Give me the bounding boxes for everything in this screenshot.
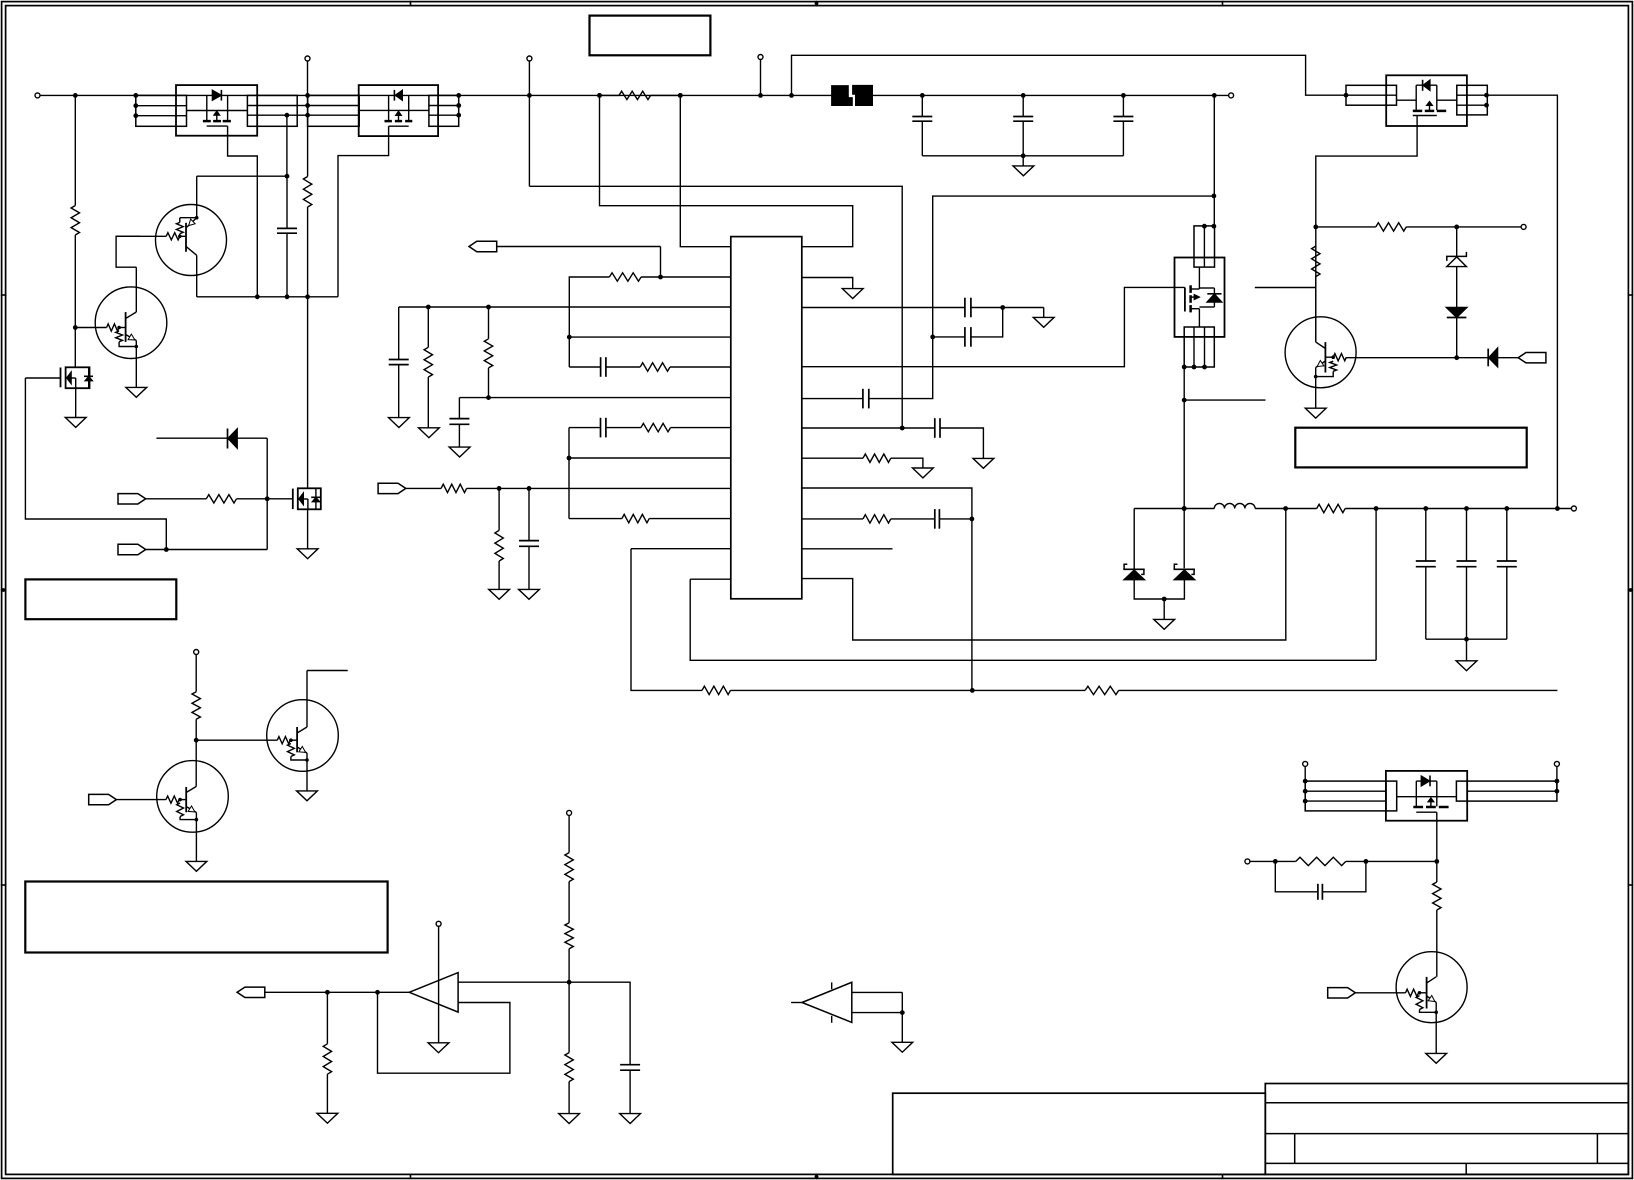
junction M5 src [1434, 859, 1439, 864]
pin group Q10 right [247, 95, 297, 126]
power tick U3 top [831, 982, 833, 989]
power tick U3 bottom [831, 1016, 833, 1023]
resistor R19 [1376, 223, 1407, 231]
base bar Q3 [185, 787, 187, 812]
terminal J6 [1521, 224, 1526, 229]
schottky D7 [1123, 509, 1164, 600]
gate bar M1 [60, 368, 62, 388]
capacitor C13 [912, 95, 932, 155]
wire Q1Q2 link [116, 236, 140, 267]
resistor R25 [565, 815, 573, 881]
wire phase row [529, 186, 902, 428]
wire J2 stub [307, 61, 309, 95]
base bar Q5 [1426, 977, 1428, 1009]
wire Q4 coll stub [307, 670, 348, 672]
wire R22 down [1436, 910, 1438, 977]
mosfet M3 package [1175, 258, 1225, 337]
junction Q6 emitter [1314, 375, 1318, 379]
wire Q3 base link [180, 799, 186, 801]
pin group Q10 left [136, 95, 187, 126]
opamp U2 [409, 973, 458, 1013]
transistor Q6 [1285, 317, 1356, 388]
mosfet M3 channel [1189, 285, 1192, 312]
junction vref1 [426, 305, 431, 310]
junction rail-c16 [1423, 506, 1428, 511]
junction bus-R2 [73, 93, 78, 98]
border tick right [1628, 294, 1634, 296]
wire U2 vcc [438, 926, 440, 1043]
wire U3 out [791, 1002, 802, 1004]
junction node A [285, 174, 290, 179]
resistor R5 [206, 495, 236, 503]
diode D4 [1457, 348, 1519, 367]
pin group M5 left [1305, 781, 1386, 811]
mosfet M4 internals [1397, 85, 1457, 115]
border tick top [410, 1, 412, 7]
port EN2 [118, 544, 146, 554]
wire Q11 source exit [338, 126, 389, 297]
junction bus-pin1 [678, 93, 683, 98]
junction bus-C13 [920, 93, 925, 98]
capacitor C19 [1275, 861, 1366, 899]
junction phase-428 [900, 426, 905, 431]
capacitor C5 [601, 357, 606, 377]
body diode M5 [1416, 776, 1437, 787]
wire CTRL2 [1355, 992, 1405, 994]
junction bus-R1b [678, 93, 683, 98]
terminal J1 [35, 93, 40, 98]
wire M2 source [307, 509, 309, 549]
junction c11 [930, 335, 935, 340]
junction rc1 [1273, 859, 1278, 864]
resistor R7 [495, 488, 503, 589]
junction Q4 base [289, 738, 293, 742]
ground R27 [559, 1114, 580, 1124]
border tick left [1, 294, 7, 296]
ground U2 [428, 1043, 449, 1053]
wire J9 stub [1556, 766, 1558, 791]
wire fb up [1375, 509, 1377, 661]
mosfet M5 package [1386, 771, 1467, 821]
junction M3 node [1212, 194, 1217, 199]
wire cap C2 top [286, 176, 288, 228]
base bar Q2 [125, 312, 127, 342]
resistor R14 [702, 686, 731, 694]
wire M4 out right [1487, 95, 1557, 508]
ground Q3 [186, 861, 207, 871]
emitter Q2 [126, 334, 137, 387]
junction gate net [265, 496, 270, 501]
diode D2 [156, 429, 267, 449]
mosfet Q11 package [359, 85, 438, 136]
junction M3-rail [1182, 506, 1187, 511]
ground schottky [1154, 599, 1175, 629]
emitter Q3 [186, 806, 196, 861]
wire J4 stub [760, 60, 762, 96]
wire ct row [459, 397, 730, 399]
wire pin20 a [802, 398, 863, 400]
junction zener [1454, 225, 1459, 230]
transistor Q2 [95, 287, 167, 359]
wire pin14 [802, 509, 1286, 641]
wire cap rail [922, 155, 1123, 157]
wire fb2 vertical [568, 428, 570, 519]
wire M4 source exit [1316, 116, 1417, 343]
wire Q1 emitter up [196, 176, 198, 218]
wire EN1 [146, 498, 207, 500]
junction rail2 [285, 294, 290, 299]
ground R8 [419, 428, 440, 438]
junction divider [567, 980, 572, 985]
border tick bottom [1222, 1174, 1224, 1180]
wire pin21 [802, 287, 1185, 366]
transistor Q3 [157, 761, 229, 833]
junction rc2 [1364, 859, 1369, 864]
junction q3c [194, 738, 199, 743]
resistor Q2 base [107, 324, 120, 331]
resistor Q1 base [166, 233, 180, 240]
wire U1 pin VCC [680, 95, 731, 246]
border tick right center [1628, 588, 1634, 592]
junction J8 pins [1303, 779, 1308, 804]
junction rail1 [255, 294, 260, 299]
wire U3 in2 [852, 1012, 903, 1014]
ground C4 [449, 447, 470, 457]
wire EN2 [146, 549, 268, 551]
capacitor C3 [389, 307, 409, 418]
label box note2 [25, 882, 387, 953]
wire R1 pads [600, 94, 681, 96]
wire pin12 [690, 578, 731, 580]
ground pin19 [973, 458, 994, 468]
junction base net [1454, 355, 1459, 360]
junction Q5 base [1418, 991, 1422, 995]
ground C3 [389, 418, 410, 428]
junction schottky [1162, 597, 1167, 602]
collector Q3 [186, 740, 196, 792]
ground pin23 [842, 289, 863, 299]
wire M3 drain [1213, 95, 1215, 226]
wire gnd return a [690, 579, 1376, 660]
pin group M4 left [1346, 85, 1397, 105]
capacitor C2 [277, 228, 297, 233]
ground caps 2 [1456, 639, 1477, 671]
wire R10 left [569, 277, 609, 367]
ground R24 [317, 1113, 338, 1123]
pin group M3 top [1194, 226, 1215, 267]
base bar Q1 [185, 223, 187, 252]
junction isns1 [497, 486, 502, 491]
resistor R26 [565, 882, 573, 983]
terminal J2 [305, 56, 310, 61]
wire pin18 [802, 458, 923, 468]
body diode Q11 [394, 90, 402, 101]
junction bus-pinbox1 [133, 93, 138, 98]
wire vref row [399, 306, 731, 308]
border tick left [1, 884, 7, 886]
resistor R18 [1312, 246, 1320, 277]
mosfet M4 package [1386, 75, 1467, 126]
junction Q3 emitter [195, 818, 199, 822]
junction gate node [285, 113, 290, 118]
pin group Q11 right [429, 95, 459, 126]
wire gate drive down [286, 115, 288, 176]
junction Q5 emitter [1434, 1011, 1438, 1015]
capacitor C18 [1497, 509, 1517, 640]
wire pin2 [641, 276, 731, 278]
ground Q2 [126, 387, 147, 397]
wire U2 inp [458, 981, 569, 983]
title block cells [1295, 1134, 1598, 1175]
emitter Q4 [297, 746, 307, 790]
terminal J10 [1245, 859, 1250, 864]
wire gate loop [25, 378, 166, 550]
junction rail-m3 [1182, 506, 1187, 511]
wire aux top [792, 55, 1347, 95]
schottky D8 [1164, 564, 1195, 599]
title block main [1265, 1084, 1628, 1175]
wire M5 source exit [1436, 812, 1438, 882]
wire pin22 a [802, 307, 965, 309]
body diode M3 [1199, 288, 1222, 307]
wire gate rail [197, 296, 338, 298]
junction bus-C15 [1121, 93, 1126, 98]
junction fbr [970, 688, 975, 693]
pin rect M5 left [1386, 781, 1397, 811]
opamp U3 [802, 982, 852, 1022]
wire rail a [1134, 508, 1214, 510]
wire U2 feedback [378, 992, 510, 1073]
junction pin rows left [133, 103, 138, 118]
junction M5 right pins [1555, 779, 1560, 794]
resistor Q5 internal [1416, 996, 1436, 1013]
junction isns2 [527, 486, 532, 491]
mosfet M1 box [66, 367, 90, 388]
wire M1 drain [74, 328, 76, 368]
junction fb node [567, 335, 572, 340]
border tick right [1628, 884, 1634, 886]
terminal J7 [1571, 506, 1576, 511]
border tick top [1222, 1, 1224, 7]
junction rail-c17 [1464, 506, 1469, 511]
capacitor C16 [1416, 509, 1436, 640]
resistor Q6 internal [1316, 361, 1337, 376]
wire rail b [1255, 508, 1317, 510]
port EN1 [118, 494, 146, 504]
gate bar M3 [1184, 288, 1186, 312]
junction pins Q11 left [305, 93, 310, 118]
terminal J12 [436, 921, 441, 926]
capacitor C4 [449, 398, 469, 448]
resistor Q4 internal [288, 744, 308, 761]
resistor R21 [1296, 857, 1346, 865]
resistor R27 [565, 982, 573, 1113]
junction Q3 base [178, 798, 182, 802]
wire Q5 base link [1420, 992, 1427, 994]
ground Q5 [1426, 1053, 1447, 1063]
wire M3 source down [1183, 367, 1185, 568]
port CTRL2 [1328, 988, 1356, 998]
collector Q6 [1316, 277, 1326, 349]
border tick bottom center [815, 1174, 819, 1180]
title block left [893, 1093, 1266, 1174]
junction bus-C14 [1021, 93, 1026, 98]
terminal J9 [1554, 761, 1559, 766]
junction Q2 base [117, 326, 121, 330]
wire Q1 base link [180, 235, 186, 237]
mosfet M2 box [298, 488, 321, 509]
resistor R3 [303, 95, 311, 296]
junction Q6 base [1331, 355, 1335, 359]
junction M3 bottom pins [1182, 365, 1207, 370]
wire cap rail 2 [1426, 638, 1507, 640]
label box note1 [25, 579, 176, 619]
capacitor C20 [569, 982, 640, 1113]
terminal J3 [527, 56, 532, 61]
label box note4 [1295, 428, 1526, 468]
capacitor C7 [519, 488, 539, 589]
resistor R13 [622, 514, 649, 522]
pin group M3 bottom [1184, 327, 1214, 367]
border tick top center [815, 1, 819, 7]
mosfet M3 drain lead [1191, 267, 1200, 289]
wire pin8 [569, 457, 731, 459]
resistor R22 [1433, 882, 1441, 910]
capacitor C11 [965, 327, 971, 347]
fuse F1 [831, 84, 873, 106]
resistor Q3 internal [177, 803, 197, 820]
wire Q10 source exit [228, 126, 258, 297]
wire stub right [1184, 399, 1265, 401]
junction bus-F1 [789, 93, 794, 98]
port ISNS [378, 483, 406, 493]
wire sense down [971, 519, 973, 691]
junction Q4 emitter [305, 758, 309, 762]
ground C7 [519, 589, 540, 599]
pin group M5 right [1467, 781, 1557, 801]
wire fb return c [1119, 689, 1558, 691]
ground R7 [489, 589, 510, 599]
wire pin23 gnd [802, 278, 853, 289]
resistor Q1 internal [176, 218, 183, 237]
title block rows [1265, 1103, 1628, 1164]
wire U3 tie [901, 992, 903, 1012]
junction rail-d [1283, 506, 1288, 511]
resistor Q2 internal [116, 331, 137, 347]
junction bus-end [1212, 93, 1217, 98]
junction Q1 emitter [195, 216, 199, 220]
terminal J11 [194, 650, 199, 655]
zener D5 [1447, 227, 1467, 307]
wire drv row b [1406, 226, 1521, 228]
mosfet M2 internals [299, 488, 320, 509]
mosfet Q10 package [176, 85, 257, 136]
wire CTRL1 [116, 799, 166, 801]
junction M3-stub [1182, 398, 1187, 403]
junction Q2 emitter [135, 345, 139, 349]
mosfet Q11 internals [359, 95, 429, 126]
wire J11 down [195, 655, 197, 692]
wire R2 to Q2 [74, 235, 76, 328]
junction pin16 [970, 517, 975, 522]
ground Q6 [1305, 408, 1326, 418]
junction drv [1313, 225, 1318, 230]
junction bus-599 [597, 93, 602, 98]
junction M3 top pins [1202, 224, 1216, 229]
junction bus-J4 [758, 93, 763, 98]
junction bus-R1a [597, 93, 602, 98]
resistor R10 [609, 273, 641, 281]
resistor R17 [863, 515, 891, 523]
capacitor C12 [935, 509, 940, 529]
terminal J13 [567, 810, 572, 815]
collector Q5 [1427, 977, 1437, 983]
resistor R15 [1085, 686, 1119, 694]
transistor Q4 [267, 700, 339, 772]
wire fb return [631, 549, 702, 691]
resistor R24 [323, 992, 331, 1113]
junction vref2 [486, 305, 491, 310]
wire pin5 b [606, 366, 731, 368]
transistor Q5 [1396, 952, 1467, 1023]
wire pin17 [802, 488, 972, 519]
wire U3 in1 [852, 991, 903, 993]
resistor R6 [441, 484, 467, 492]
wire pin19 a [802, 427, 935, 429]
ground pin22 [1033, 308, 1054, 328]
gate bar M2 [292, 489, 294, 510]
capacitor C9 [863, 389, 869, 409]
resistor Q6 base [1325, 354, 1346, 361]
junction pins Q11 right [456, 93, 461, 118]
port DRV [1518, 353, 1546, 363]
junction ct [486, 395, 491, 400]
wire pin16 [802, 518, 972, 520]
resistor R9 [484, 307, 492, 398]
port VOUT [237, 987, 265, 997]
wire V-in vertical [74, 95, 76, 205]
junction rail-c18 [1504, 506, 1509, 511]
resistor Q4 base [277, 737, 290, 744]
wire R23 down [195, 719, 197, 740]
junction U3 [900, 1010, 905, 1015]
ground C20 [620, 1114, 641, 1124]
wire rail c [1345, 508, 1571, 510]
ground M1 [65, 418, 86, 428]
wire M1 gate in [25, 377, 60, 379]
junction rail-fb [1374, 506, 1379, 511]
wire rc row b [1346, 860, 1437, 862]
wire isns a [406, 487, 441, 489]
junction c10 [1000, 305, 1005, 310]
wire stub gate [1255, 287, 1316, 289]
wire pin7 [569, 427, 731, 429]
ground pin18 [913, 468, 934, 478]
pin group M4 right [1457, 85, 1488, 115]
junction vout2 [375, 990, 380, 995]
wire M2 drain [307, 297, 309, 489]
ground U3 [892, 1013, 913, 1053]
junction rail3 [305, 294, 310, 299]
ground Q4 [297, 791, 318, 801]
capacitor C8 [935, 418, 940, 438]
wire fb return b [731, 689, 1086, 691]
resistor R2 [71, 206, 79, 236]
wire Q4 base link [291, 739, 297, 741]
wire rc row [1250, 860, 1296, 862]
wire COMP net [497, 247, 661, 278]
resistor R8 [424, 307, 432, 428]
